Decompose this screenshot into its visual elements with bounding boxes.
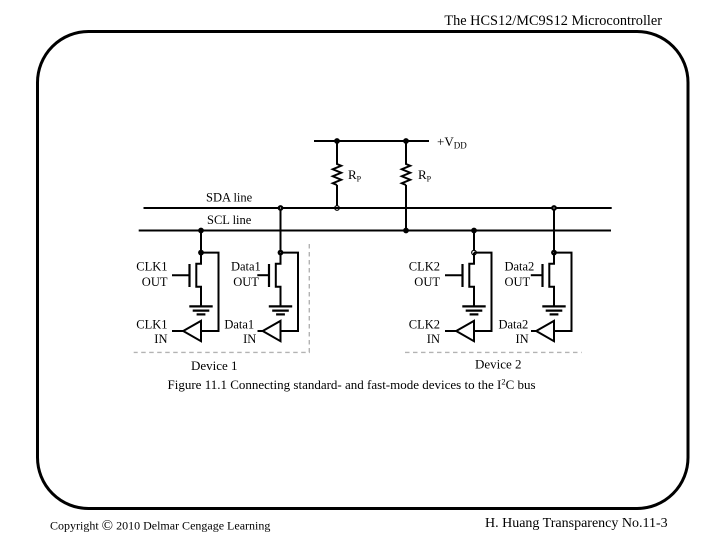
label Device 2 xyxy=(475,357,522,372)
wire CLK1 bus tap xyxy=(200,231,202,253)
footer copyright text xyxy=(50,518,270,534)
resistor Rp1 xyxy=(333,141,341,208)
transistor Q-CLK2 gate bar xyxy=(461,264,463,287)
wire SCL bus line xyxy=(139,230,611,232)
transistor Q-Data1 drain/source path xyxy=(276,253,281,307)
svg-text:CLK2: CLK2 xyxy=(409,259,440,273)
wire CLK2 feedback to input buffer xyxy=(474,253,492,331)
ground CLK2 xyxy=(462,306,485,314)
buffer U-CLK1-IN xyxy=(183,321,201,341)
svg-text:SDA line: SDA line xyxy=(206,191,253,205)
wire SDA bus line xyxy=(144,207,612,209)
svg-text:Figure 11.1 Connecting standar: Figure 11.1 Connecting standard- and fas… xyxy=(168,376,536,392)
svg-text:Data2: Data2 xyxy=(498,317,528,331)
svg-text:SCL line: SCL line xyxy=(207,213,252,227)
label Data2 OUT xyxy=(504,259,534,289)
device 2 dashed box xyxy=(405,351,582,353)
svg-text:IN: IN xyxy=(243,332,256,346)
svg-text:CLK2: CLK2 xyxy=(409,317,440,331)
label SCL line xyxy=(207,213,252,227)
svg-text:IN: IN xyxy=(515,332,528,346)
transistor Q-CLK1 drain/source path xyxy=(196,253,201,307)
label Device 1 xyxy=(191,358,238,373)
transistor Q-Data2 drain/source path xyxy=(549,253,554,307)
wire Data2 bus tap xyxy=(553,208,555,253)
transistor Q-Data2 gate bar xyxy=(541,264,543,287)
svg-text:H. Huang Transparency No.11-3: H. Huang Transparency No.11-3 xyxy=(485,516,668,531)
node CLK2 drain xyxy=(471,250,477,256)
svg-text:OUT: OUT xyxy=(142,275,168,289)
wire Data2 feedback to input buffer xyxy=(554,253,572,331)
wire Data1 OUT gate lead xyxy=(257,274,269,276)
node Rp2 to +VDD xyxy=(403,138,409,144)
label Rp2 xyxy=(418,167,432,184)
svg-text:Data1: Data1 xyxy=(224,317,254,331)
node Data1 drain xyxy=(278,250,284,256)
label CLK1 IN xyxy=(136,317,167,346)
svg-text:IN: IN xyxy=(154,332,167,346)
wire CLK2 IN output lead xyxy=(445,330,456,332)
svg-text:CLK1: CLK1 xyxy=(136,259,167,273)
node Data1 junction on SDA xyxy=(278,205,284,211)
label SDA line xyxy=(206,191,253,205)
svg-text:RP: RP xyxy=(418,167,432,184)
node Data2 drain xyxy=(551,250,557,256)
wire Data2 IN output lead xyxy=(531,330,536,332)
wire CLK2 bus tap xyxy=(473,231,475,253)
node Rp1 to +VDD xyxy=(334,138,340,144)
ground Data2 xyxy=(542,306,565,314)
wire Data2 OUT gate lead xyxy=(531,274,543,276)
svg-text:+VDD: +VDD xyxy=(437,134,467,151)
label +VDD xyxy=(437,134,467,151)
resistor Rp2 xyxy=(402,141,410,231)
ground Data1 xyxy=(269,306,292,314)
wire CLK1 IN output lead xyxy=(172,330,183,332)
node CLK1 junction on SCL xyxy=(198,228,204,234)
transistor Q-CLK1 gate bar xyxy=(188,264,190,287)
svg-text:IN: IN xyxy=(427,332,440,346)
label Data1 OUT xyxy=(231,259,261,289)
node CLK1 drain xyxy=(198,250,204,256)
svg-text:Copyright © 2010 Delmar Cengag: Copyright © 2010 Delmar Cengage Learning xyxy=(50,518,270,534)
node Rp2 to SCL xyxy=(403,228,409,234)
wire CLK1 OUT gate lead xyxy=(172,274,190,276)
svg-text:OUT: OUT xyxy=(414,275,440,289)
buffer U-Data2-IN xyxy=(536,321,554,341)
wire Data1 bus tap xyxy=(280,208,282,253)
svg-text:OUT: OUT xyxy=(233,275,259,289)
node Data2 junction on SDA xyxy=(551,205,557,211)
buffer U-Data1-IN xyxy=(263,321,281,341)
device 1 dashed box xyxy=(134,244,310,352)
label CLK1 OUT xyxy=(136,259,168,289)
svg-text:Data1: Data1 xyxy=(231,259,261,273)
svg-text:Data2: Data2 xyxy=(504,259,534,273)
figure caption xyxy=(168,376,536,392)
footer transparency text xyxy=(485,516,668,531)
wire CLK2 OUT gate lead xyxy=(445,274,463,276)
wire +VDD rail xyxy=(314,140,429,142)
wire CLK1 feedback to input buffer xyxy=(201,253,219,331)
label Rp1 xyxy=(348,167,362,184)
label Data2 IN xyxy=(498,317,528,346)
label CLK2 IN xyxy=(409,317,440,346)
title text xyxy=(444,13,662,29)
svg-text:RP: RP xyxy=(348,167,362,184)
node Rp1 to SDA xyxy=(334,205,340,211)
svg-text:CLK1: CLK1 xyxy=(136,317,167,331)
wire Data1 feedback to input buffer xyxy=(281,253,299,331)
svg-text:OUT: OUT xyxy=(504,275,530,289)
svg-text:Device 1: Device 1 xyxy=(191,358,238,373)
ground CLK1 xyxy=(189,306,212,314)
svg-text:The HCS12/MC9S12 Microcontroll: The HCS12/MC9S12 Microcontroller xyxy=(444,13,662,29)
svg-text:Device 2: Device 2 xyxy=(475,357,522,372)
label Data1 IN xyxy=(224,317,256,346)
transistor Q-CLK2 drain/source path xyxy=(469,253,474,307)
label CLK2 OUT xyxy=(409,259,441,289)
transistor Q-Data1 gate bar xyxy=(268,264,270,287)
buffer U-CLK2-IN xyxy=(456,321,474,341)
wire Data1 IN output lead xyxy=(258,330,263,332)
node CLK2 junction on SCL xyxy=(471,228,477,234)
